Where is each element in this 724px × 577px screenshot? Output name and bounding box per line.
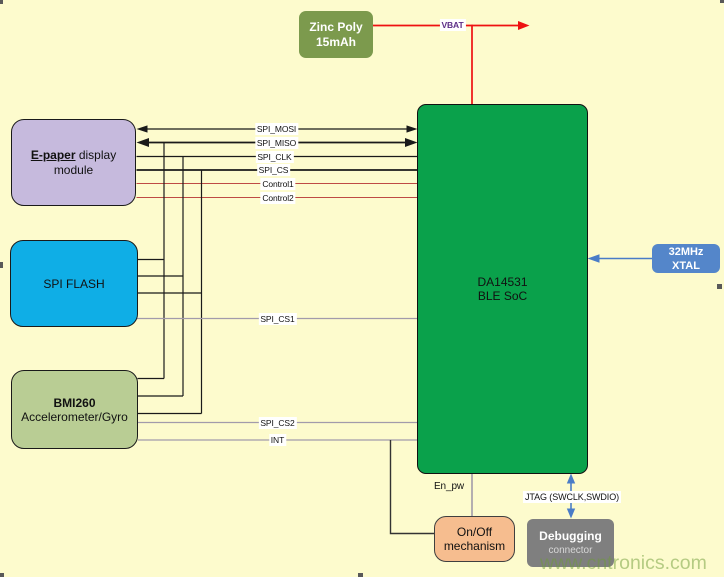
wire VBAT arrowhead	[518, 21, 530, 30]
screen artifact bottom-left	[0, 573, 4, 577]
wire stub to BMI260 1	[138, 378, 165, 380]
net label Control1	[260, 178, 295, 190]
screen artifact bottom-dash	[358, 573, 363, 577]
wire stub to SPI FLASH 2	[137, 275, 183, 277]
wire SPI_CLK	[137, 156, 418, 158]
net label JTAG (SWCLK,SWDIO)	[523, 491, 621, 503]
block 32MHz XTAL	[652, 244, 720, 273]
block Debugging connector	[527, 519, 614, 567]
screen artifact left-middle	[0, 262, 3, 268]
wire bus vertical 2 (from SPI_CLK)	[182, 157, 184, 397]
net label SPI_MOSI	[255, 123, 298, 135]
wire VBAT vertical drop to SoC	[471, 25, 473, 104]
net label SPI_CS1	[258, 313, 296, 325]
block SPI FLASH	[10, 240, 138, 327]
wire SPI_CS	[137, 169, 418, 171]
screen artifact top-right	[720, 0, 724, 3]
block E-paper display module	[11, 119, 136, 206]
wire JTAG double arrow	[570, 481, 572, 511]
net label SPI_MISO	[255, 137, 298, 149]
net label SPI_CS	[257, 164, 291, 176]
net label VBAT	[439, 19, 465, 31]
net label En_pw	[432, 481, 466, 493]
wire Control2	[137, 197, 418, 199]
wire Control1	[137, 183, 418, 185]
screen artifact right-middle	[717, 284, 722, 289]
wire En_pw vertical SoC to On/Off	[471, 473, 473, 517]
net label SPI_CS2	[258, 417, 296, 429]
wire stub to BMI260 2	[138, 395, 184, 397]
wire stub to BMI260 3	[138, 413, 202, 415]
wire stub to SPI FLASH 3	[137, 292, 202, 294]
block BMI260 Accelerometer/Gyro	[11, 370, 138, 449]
wire VBAT horizontal	[373, 25, 519, 27]
block DA14531 BLE SoC	[417, 104, 588, 474]
wire bus vertical 1 (from SPI_MISO)	[163, 143, 165, 379]
wire SPI_CS2	[138, 422, 418, 424]
net label INT	[269, 434, 286, 446]
screen artifact top-left	[0, 0, 3, 4]
net label Control2	[260, 192, 295, 204]
block Zinc Poly 15mAh battery	[299, 11, 373, 58]
wire bus vertical 3 (from SPI_CS)	[201, 170, 203, 414]
watermark www.cntronics.com	[540, 552, 707, 575]
net label SPI_CLK	[255, 151, 293, 163]
wire INT	[138, 439, 418, 441]
wire On/Off to INT route	[391, 440, 435, 534]
wire SPI_MOSI	[145, 128, 410, 130]
wire stub to SPI FLASH 1	[137, 259, 164, 261]
wire SPI_CS1	[137, 318, 418, 320]
wire SPI_MISO	[145, 142, 410, 144]
wire XTAL blue arrow	[597, 258, 652, 260]
block On/Off mechanism	[434, 516, 515, 562]
